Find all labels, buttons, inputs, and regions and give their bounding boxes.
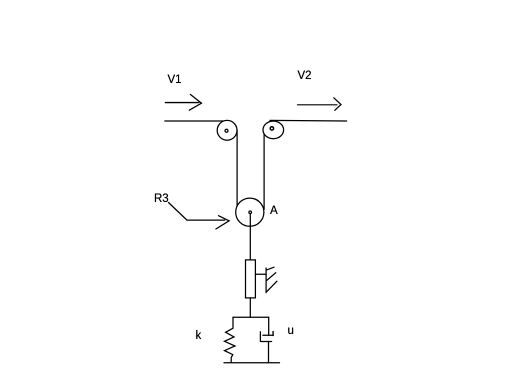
svg-text:u: u (288, 325, 294, 337)
svg-text:V2: V2 (298, 70, 312, 82)
damper u piston bar (263, 334, 273, 336)
arrow V1 (165, 94, 201, 110)
roller P2 right idler (263, 121, 284, 139)
wall hatch 3 (267, 281, 277, 292)
wire slider to branch vertical (249, 298, 251, 317)
node dancer axle dot (249, 211, 252, 214)
wire right branch vertical (268, 317, 270, 335)
wire right roller to dancer vertical (263, 130, 265, 209)
damper u cup bottom (261, 341, 272, 343)
svg-text:k: k (196, 330, 202, 342)
svg-text:A: A (270, 205, 278, 217)
roller A dancer (236, 198, 264, 226)
wall vertical line (265, 268, 267, 293)
wall hatch 2 (267, 273, 276, 281)
wire left branch vertical (232, 317, 234, 328)
wire slider to wall connector (255, 273, 266, 275)
svg-text:V1: V1 (168, 74, 182, 86)
wire dancer to slider vertical (249, 214, 251, 260)
slider guide rectangle (246, 260, 256, 298)
arrow V2 (298, 98, 342, 111)
ground line (224, 362, 280, 364)
damper u cup right wall (272, 332, 274, 336)
leader arrow R3 (169, 203, 230, 230)
wire web-in left horizontal (165, 120, 227, 122)
damper u cup left wall (259, 332, 261, 342)
wire branch T-bar horizontal (233, 316, 269, 318)
wire web-out right horizontal (270, 119, 347, 122)
wire left roller to dancer vertical (236, 130, 238, 206)
wire damper to ground vertical (268, 342, 270, 363)
spring k zigzag (225, 328, 236, 362)
roller P1 left idler (217, 120, 237, 140)
svg-text:R3: R3 (154, 193, 169, 205)
wall hatch 1 (266, 267, 274, 270)
